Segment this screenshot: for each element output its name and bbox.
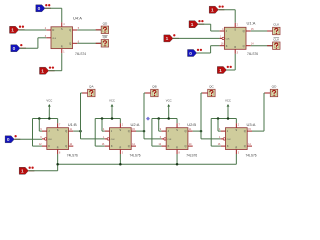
VCC power symbol stage 2 <box>109 98 115 109</box>
svg-text:R: R <box>119 146 121 149</box>
svg-text:1: 1 <box>11 28 14 34</box>
wire VCC rail stage 1 <box>33 118 58 120</box>
svg-text:0: 0 <box>38 6 41 12</box>
wire reset tag to rail <box>28 170 57 172</box>
wire VCC drop stage 2 <box>111 110 113 119</box>
logic-state tag K input (0) value 0 <box>188 49 203 57</box>
logic-state tag CLK input (1) value 1 <box>164 34 179 42</box>
wire R to reset rail stage 1 <box>57 154 59 164</box>
junction J-branch stage 4 <box>217 117 220 120</box>
logic-state tag counter clock input (0) value 0 <box>5 135 20 143</box>
svg-text:0: 0 <box>13 46 16 52</box>
svg-text:K: K <box>168 144 170 148</box>
JK flip-flop U3:A 74LS76 <box>226 128 248 150</box>
svg-text:R: R <box>57 146 59 149</box>
VCC power symbol stage 4 <box>225 98 231 109</box>
logic probe QC <box>202 85 215 97</box>
svg-text:Q: Q <box>244 129 246 133</box>
svg-text:VCC: VCC <box>225 98 231 102</box>
wire R to reset rail stage 3 <box>176 154 178 164</box>
svg-text:74LS76: 74LS76 <box>247 52 258 56</box>
wire Q up to probe QB <box>143 93 145 139</box>
junction Q node stage 3 <box>200 130 203 133</box>
svg-text:CLK: CLK <box>226 39 231 41</box>
svg-text:CLK: CLK <box>167 139 172 141</box>
svg-text:1: 1 <box>191 22 194 28</box>
wire D input <box>19 29 47 31</box>
wire clock input stage 1 <box>14 138 42 140</box>
junction reset stage 1 <box>56 163 59 166</box>
svg-text:R: R <box>235 146 237 149</box>
wire Q output stage 1 <box>73 130 80 132</box>
svg-text:Q: Q <box>243 44 245 48</box>
VCC power symbol stage 1 <box>46 98 52 109</box>
wire VCC drop stage 3 <box>168 110 170 119</box>
svg-text:Q: Q <box>65 129 67 133</box>
junction Q node stage 1 <box>79 130 82 133</box>
logic-state tag R input (1) value 1 <box>40 66 55 74</box>
wire VCC drop stage 1 <box>48 110 50 119</box>
svg-text:Q: Q <box>184 144 186 148</box>
wire VCC rail stage 4 <box>211 118 236 120</box>
wire VCC rail stage 3 <box>152 118 177 120</box>
wire J tie stage 4 <box>217 119 219 132</box>
wire S input <box>218 9 235 11</box>
logic-state tag J input (1) value 1 <box>189 20 204 28</box>
logic-state tag R input (1) value 1 <box>217 66 232 74</box>
junction reset stage 3 <box>176 163 179 166</box>
D flip-flop U4:A 74LS74 <box>51 27 73 49</box>
VCC power symbol stage 3 <box>166 98 172 109</box>
wire R to reset rail stage 2 <box>119 154 121 164</box>
svg-text:QC: QC <box>209 85 214 89</box>
wire R to reset rail stage 4 <box>235 154 237 164</box>
svg-text:R: R <box>61 45 63 48</box>
svg-text:1: 1 <box>219 68 222 74</box>
wire Q to QD probe <box>77 29 101 31</box>
wire Q up to probe QC <box>200 93 202 139</box>
logic probe QD <box>96 22 109 34</box>
svg-text:CLK: CLK <box>48 139 53 141</box>
pin stubs U1:A <box>220 30 225 32</box>
svg-text:0: 0 <box>7 137 10 143</box>
svg-text:K: K <box>48 144 50 148</box>
wire J input <box>198 23 211 25</box>
wire probe link QA <box>81 92 88 94</box>
logic-state tag S input (0) value 0 <box>36 4 51 12</box>
wire R input <box>49 70 62 72</box>
pin stubs U2:B <box>161 130 166 132</box>
wire S tie stage 3 <box>176 119 178 124</box>
svg-text:Q: Q <box>65 144 67 148</box>
wire VCC drop stage 4 <box>227 110 229 119</box>
wire Q output stage 4 <box>252 130 264 132</box>
pin stubs U3:A <box>221 130 226 132</box>
logic-state tag CLK input (0) value 0 <box>11 44 26 52</box>
wire Q up to probe QA <box>80 93 82 139</box>
logic-state tag S input (1) value 1 <box>209 5 224 13</box>
svg-text:QD: QD <box>103 35 108 39</box>
junction reset stage 2 <box>119 163 122 166</box>
svg-text:Q: Q <box>184 129 186 133</box>
logic-state tag reset input (1) value 1 <box>19 167 34 175</box>
wire R input <box>227 69 236 71</box>
wire Q output stage 3 <box>193 130 201 132</box>
logic probe CLK <box>267 23 280 35</box>
junction VCC stage 3 <box>167 117 170 120</box>
svg-text:K: K <box>226 44 228 48</box>
logic probe QA <box>82 85 95 97</box>
logic-state tag D input (1) value 1 <box>10 26 25 34</box>
svg-text:U2:B: U2:B <box>187 122 196 127</box>
svg-text:Q: Q <box>128 129 130 133</box>
svg-text:VCC: VCC <box>166 98 172 102</box>
junction J-branch stage 3 <box>157 117 160 120</box>
wire clock feed to next stage <box>81 138 105 140</box>
svg-text:1: 1 <box>211 8 214 14</box>
wire K input <box>197 52 211 54</box>
svg-text:CLK: CLK <box>52 38 57 40</box>
wire J tie stage 1 <box>38 119 40 132</box>
svg-text:QD: QD <box>103 22 108 26</box>
svg-text:CLK: CLK <box>273 23 280 27</box>
wire Q output stage 2 <box>136 130 144 132</box>
blue origin marker <box>146 117 150 121</box>
svg-text:74LS76: 74LS76 <box>67 153 78 157</box>
svg-text:74LS76: 74LS76 <box>130 153 141 157</box>
wire probe link QB <box>144 92 151 94</box>
wire K tie stage 1 <box>32 119 34 147</box>
wire Q up to probe QD <box>263 93 265 131</box>
svg-text:D: D <box>52 28 54 32</box>
junction VCC stage 2 <box>111 117 114 120</box>
wire K tie stage 3 <box>151 119 153 147</box>
JK flip-flop U1:A 74LS76 <box>224 27 246 49</box>
wire VCC rail stage 2 <box>95 118 120 120</box>
svg-text:R: R <box>176 146 178 149</box>
wire J tie stage 3 <box>158 119 160 132</box>
pin stubs U1:B <box>42 130 47 132</box>
junction J-branch stage 1 <box>38 117 41 120</box>
svg-text:1: 1 <box>41 69 44 75</box>
svg-text:U1:A: U1:A <box>247 20 256 25</box>
wire K tie stage 2 <box>94 119 96 147</box>
svg-text:CLK: CLK <box>227 139 232 141</box>
svg-text:Q: Q <box>244 144 246 148</box>
wire S tie stage 1 <box>57 119 59 124</box>
wire S tie stage 4 <box>235 119 237 124</box>
svg-text:Q: Q <box>69 41 71 45</box>
svg-text:QD: QD <box>272 85 277 89</box>
junction Q node stage 2 <box>143 130 146 133</box>
svg-text:0: 0 <box>189 51 192 57</box>
svg-text:Q: Q <box>69 28 71 32</box>
JK flip-flop U2:B 74LS76 <box>166 128 188 150</box>
wire probe link QC <box>201 92 208 94</box>
wire probe link QD <box>264 92 270 94</box>
logic probe QD-bar <box>96 35 109 47</box>
svg-text:R: R <box>234 46 236 49</box>
svg-text:K: K <box>227 144 229 148</box>
svg-text:1: 1 <box>21 169 24 175</box>
svg-text:VCC: VCC <box>109 98 115 102</box>
wire Qbar to QD-bar probe <box>77 42 101 44</box>
svg-text:U1:B: U1:B <box>68 122 77 127</box>
svg-text:74LS76: 74LS76 <box>186 153 197 157</box>
logic probe CLK-bar <box>267 37 280 49</box>
wire Q to CLK probe <box>251 30 273 32</box>
svg-text:Q: Q <box>243 29 245 33</box>
svg-text:U2:A: U2:A <box>131 122 140 127</box>
pin stubs U2:A <box>105 130 110 132</box>
svg-text:CLK: CLK <box>273 37 280 41</box>
wire clock feed to next stage <box>201 138 221 140</box>
wire J tie stage 2 <box>101 119 103 132</box>
svg-text:1: 1 <box>166 36 169 42</box>
logic probe QD <box>265 85 278 97</box>
wire S input <box>45 7 62 9</box>
junction J-branch stage 2 <box>101 117 104 120</box>
wire S tie stage 2 <box>119 119 121 124</box>
svg-text:74LS76: 74LS76 <box>246 153 257 157</box>
svg-text:74LS74: 74LS74 <box>75 52 86 56</box>
svg-text:U3:A: U3:A <box>247 122 256 127</box>
logic probe QB <box>145 85 158 97</box>
pin stubs U4:A <box>46 29 51 31</box>
junction VCC stage 1 <box>48 117 51 120</box>
svg-text:K: K <box>111 144 113 148</box>
wire clock feed to next stage <box>144 138 161 140</box>
svg-text:U4:A: U4:A <box>73 16 82 21</box>
wire reset rail <box>58 163 237 165</box>
wire K tie stage 4 <box>210 119 212 147</box>
svg-text:CLK: CLK <box>111 139 116 141</box>
wire CLK input <box>173 37 220 39</box>
svg-text:QB: QB <box>152 85 156 89</box>
junction VCC stage 4 <box>227 117 230 120</box>
JK flip-flop U2:A 74LS76 <box>110 128 132 150</box>
JK flip-flop U1:B 74LS76 <box>47 128 69 150</box>
wire CLK input <box>20 47 38 49</box>
wire Qbar to CLK-bar probe <box>251 45 273 47</box>
svg-text:Q: Q <box>128 144 130 148</box>
svg-text:VCC: VCC <box>46 98 52 102</box>
